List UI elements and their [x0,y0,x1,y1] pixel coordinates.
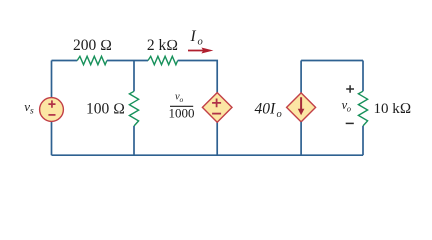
arrow Io [188,48,213,54]
wire top-left segment [52,60,78,62]
svg-text:o: o [347,103,351,113]
wire left branch [51,61,53,156]
svg-text:I: I [269,101,276,118]
svg-text:200 Ω: 200 Ω [73,37,112,54]
svg-text:s: s [30,107,34,117]
label minus vo [346,122,354,124]
svg-text:o: o [180,95,184,104]
wire dependent vsource to bottom [216,122,218,155]
wire right branch bottom [362,126,364,155]
wire bottom net [52,154,364,156]
svg-text:o: o [277,109,282,120]
svg-text:2 kΩ: 2 kΩ [147,37,178,54]
plus sign in diamond [212,99,221,108]
svg-text:100 Ω: 100 Ω [86,100,125,117]
wire between 200ohm and node [107,60,148,62]
label plus vo [346,85,354,93]
wire current source bottom [300,122,302,155]
resistor 200 ohm [77,56,107,64]
dependent voltage source diamond [202,93,232,123]
svg-text:I: I [190,28,197,45]
resistor 2 kohm [148,56,178,64]
svg-text:40: 40 [255,101,271,118]
wire top right section [301,60,363,62]
wire 100 ohm to bottom [133,126,135,155]
wire right branch top [362,61,364,92]
node branch 100 ohm top wire [133,61,135,92]
minus sign in diamond [212,113,221,115]
resistor 100 ohm [129,91,138,126]
wire from 2kohm to dependent source branch [178,61,218,93]
svg-text:10 kΩ: 10 kΩ [374,101,412,117]
svg-text:o: o [198,37,203,48]
resistor 10 kohm [358,91,367,126]
minus sign in vs [48,114,55,116]
wire current source top [300,61,302,94]
voltage source vs circle [40,98,64,122]
label vo/1000 fraction [169,92,195,121]
arrow in current source [298,97,305,115]
dependent current source diamond [287,93,316,122]
plus sign in vs [48,100,55,107]
svg-text:1000: 1000 [169,106,195,121]
